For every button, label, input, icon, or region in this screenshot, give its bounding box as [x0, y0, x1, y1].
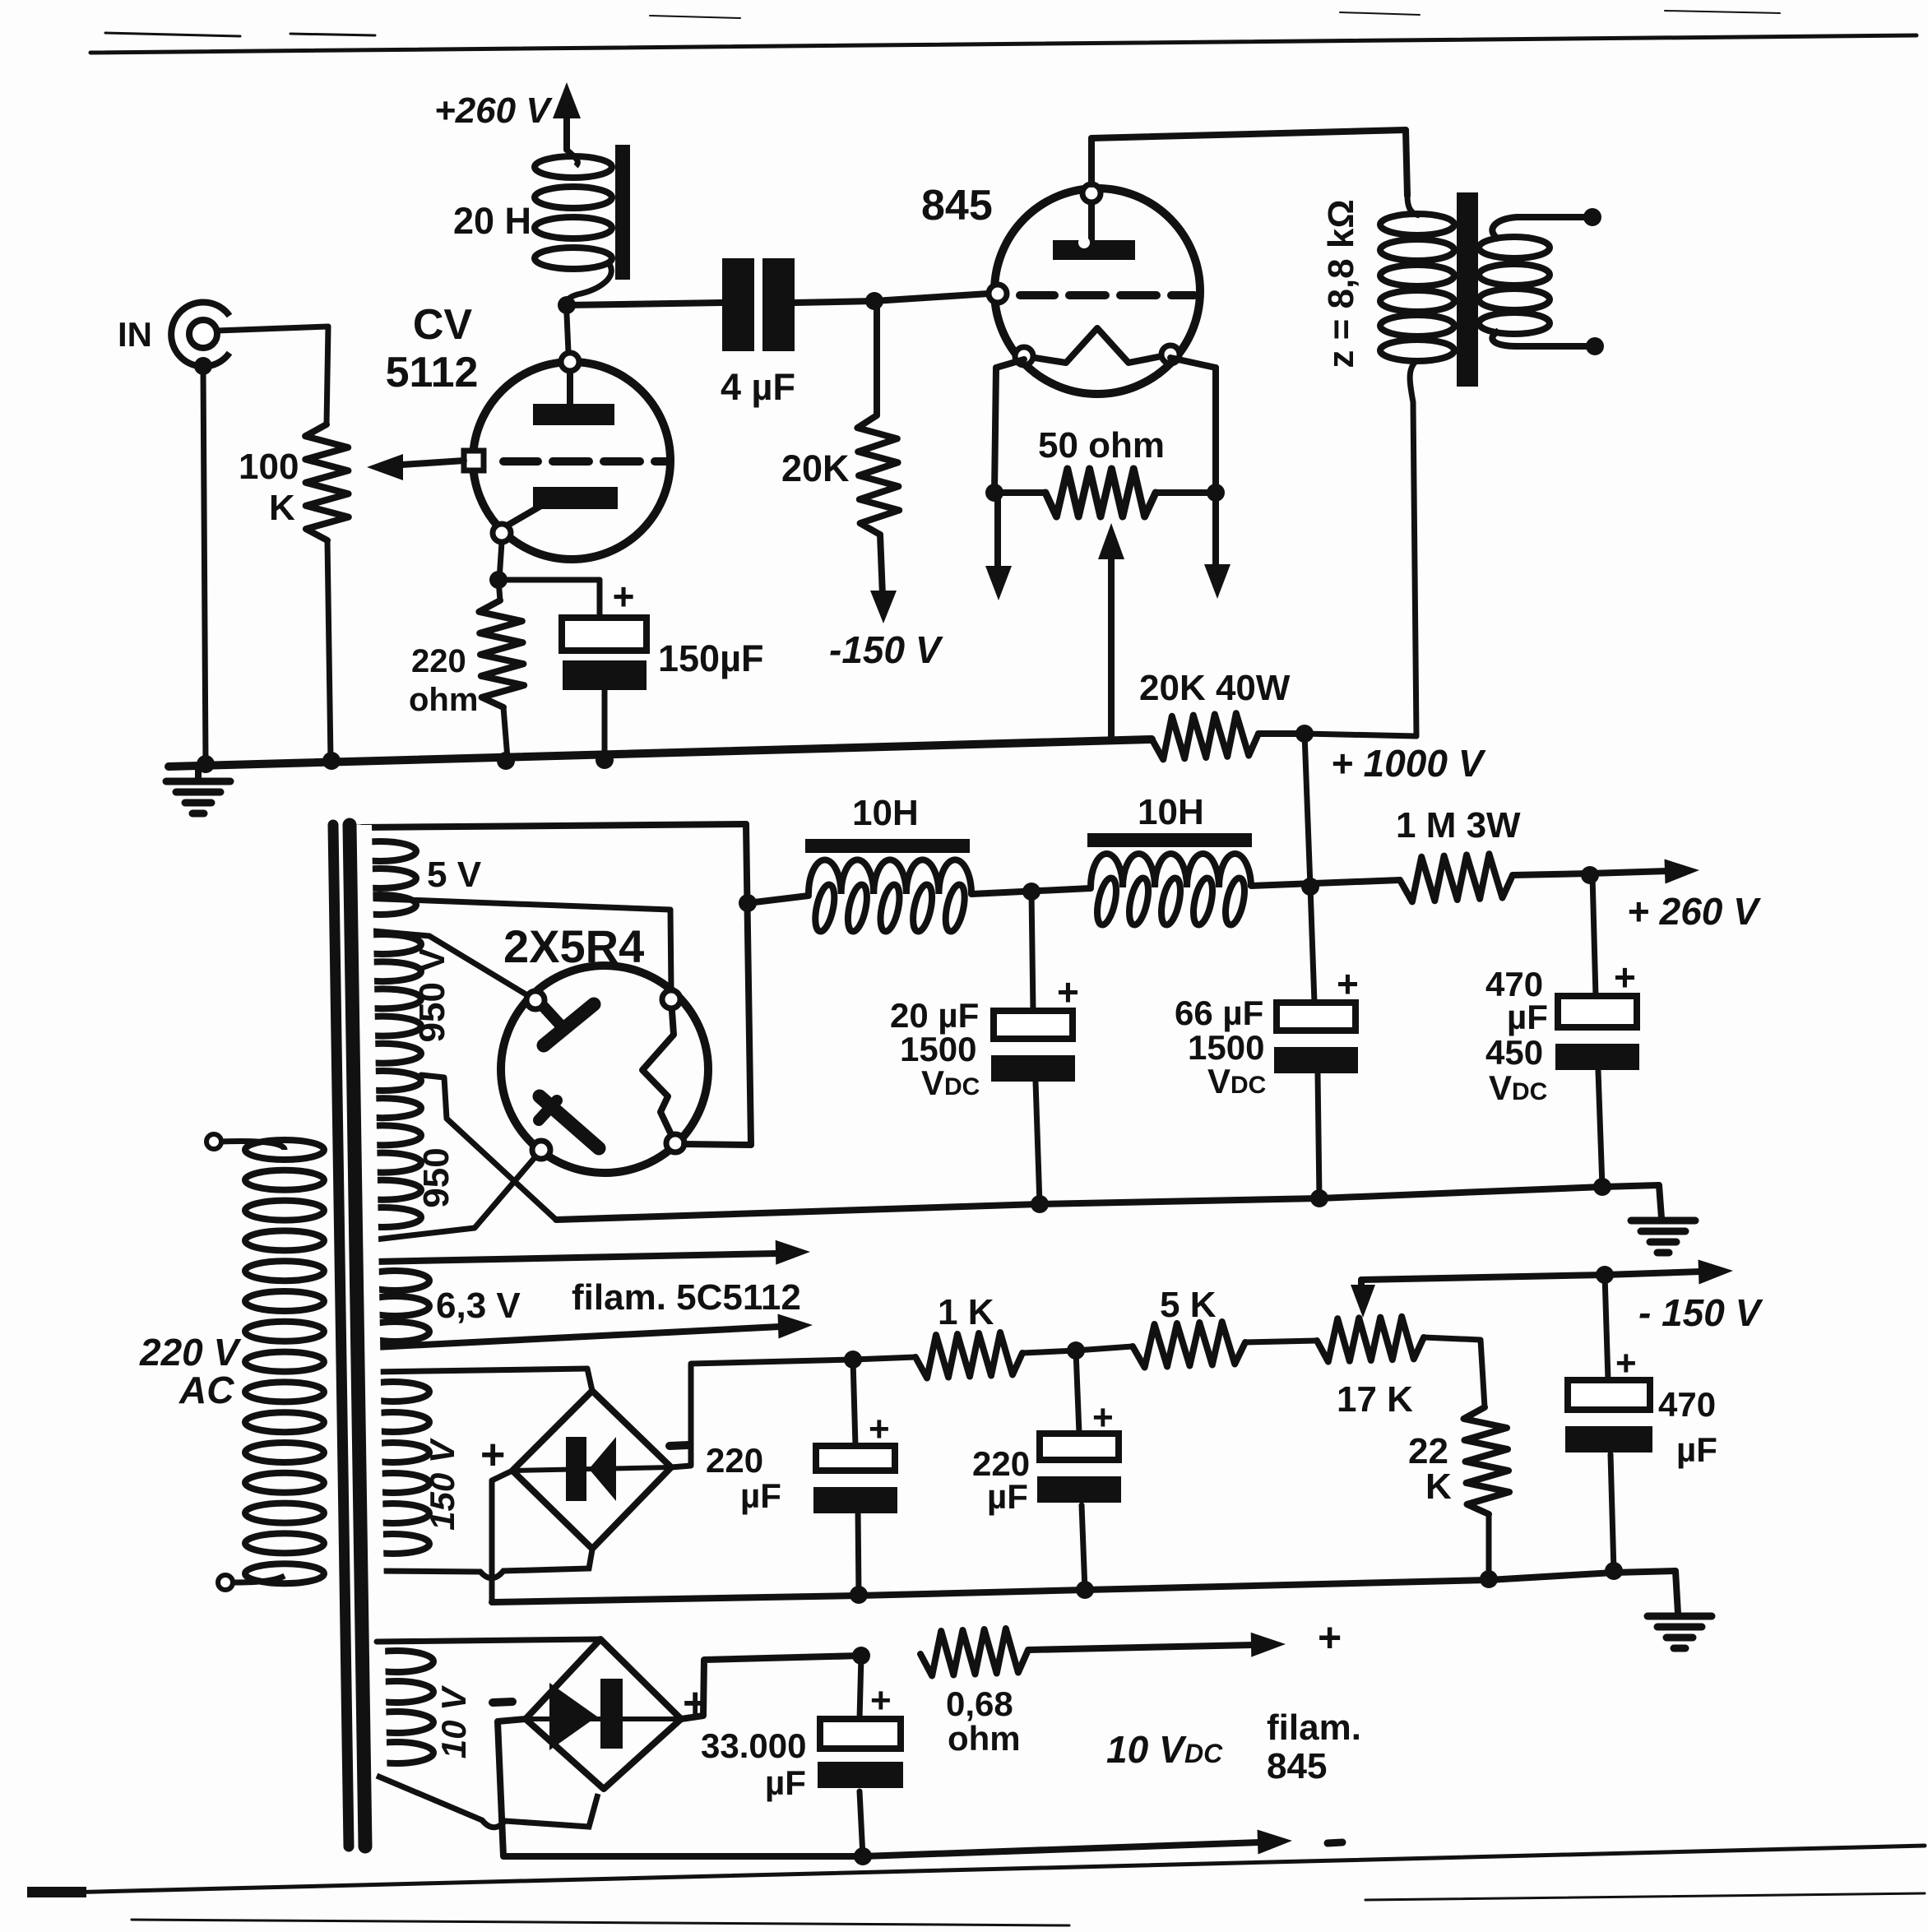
label 20 H — [453, 200, 531, 242]
bridge rectifier D1 diamond — [512, 1391, 671, 1549]
tube V1 anode pin — [561, 353, 579, 371]
label 1 K — [938, 1292, 994, 1332]
label 845 — [921, 182, 993, 229]
tube V3 pin filament top — [662, 990, 680, 1008]
svg-text:µF: µF — [765, 1763, 806, 1802]
PSU negative bus — [556, 1185, 1659, 1220]
bridge rectifier D2 diamond — [526, 1639, 681, 1789]
inductor L1 10H coil — [809, 859, 971, 933]
label 220 uF (second) — [972, 1444, 1030, 1516]
svg-text:4 µF: 4 µF — [721, 366, 795, 408]
tube V2 filament pins — [1015, 345, 1180, 365]
label 950 V (upper) — [412, 947, 452, 1043]
svg-text:K: K — [269, 488, 295, 528]
label + (470uF bias) — [1615, 1343, 1637, 1383]
svg-text:+ 1000 V: + 1000 V — [1331, 742, 1486, 785]
svg-text:V: V — [1489, 1068, 1512, 1107]
label + (470uF PSU) — [1614, 956, 1636, 998]
arrow filament - output — [507, 1830, 1292, 1865]
svg-text:1500: 1500 — [1188, 1028, 1264, 1067]
svg-text:+: + — [1615, 1343, 1637, 1383]
label - (bridge2) — [493, 1702, 512, 1703]
arrow filament 5C5112 lower — [375, 1314, 813, 1348]
wire 5V top to output (rectifier cathode rail) — [362, 824, 746, 827]
label IN — [118, 315, 152, 354]
capacitor C9 470uF (bias) — [1565, 1275, 1652, 1571]
svg-text:ohm: ohm — [409, 682, 478, 718]
junction dot bus-470uF — [1593, 1178, 1611, 1196]
svg-text:+: + — [869, 1409, 890, 1449]
label 100 K — [239, 447, 299, 528]
label 220 ohm — [409, 643, 478, 718]
svg-text:5 V: 5 V — [427, 855, 482, 895]
junction dot bus-150uF — [596, 751, 614, 769]
node E junction dot (20uF) — [1022, 883, 1040, 901]
svg-text:5 K: 5 K — [1160, 1285, 1217, 1325]
label 4 uF — [721, 366, 795, 408]
label z = 8,8 kOhm — [1321, 199, 1361, 368]
label 0,68 ohm — [946, 1684, 1021, 1758]
junction dot bus-IN — [197, 755, 215, 773]
svg-text:10H: 10H — [852, 793, 919, 833]
wire 10V bottom to bridge2 AC2 — [377, 1776, 598, 1828]
svg-text:AC: AC — [178, 1369, 234, 1411]
svg-text:950: 950 — [416, 1147, 457, 1207]
svg-text:DC: DC — [1512, 1078, 1547, 1105]
tube V3 pin plate1 — [526, 991, 545, 1009]
label 1 M 3W — [1396, 805, 1521, 846]
potentiometer R5 50 ohm — [994, 469, 1216, 517]
label 150uF — [658, 637, 764, 679]
junction dot bias bus 470uF — [1605, 1562, 1623, 1580]
inductor 20H core bar — [615, 145, 630, 280]
tube V3 2X5R4 envelope — [501, 966, 708, 1173]
svg-text:CV: CV — [413, 301, 473, 349]
label 5 V — [427, 855, 482, 895]
potentiometer R1 100K — [305, 424, 349, 761]
node C junction dot (cathode/220ohm/150uF) — [489, 571, 507, 589]
page top border line — [90, 11, 1916, 53]
svg-text:-150 V: -150 V — [829, 628, 943, 671]
wire HV center tap to PSU bus — [421, 1075, 556, 1220]
arrow filament + output — [1028, 1633, 1286, 1657]
svg-text:+: + — [870, 1680, 892, 1721]
label 220 V AC — [139, 1331, 242, 1411]
capacitor C10 33000uF — [818, 1656, 903, 1856]
junction dot bus-66uF — [1310, 1189, 1328, 1207]
svg-text:+: + — [613, 575, 635, 618]
label + 1000 V — [1331, 742, 1486, 785]
svg-text:K: K — [1425, 1466, 1452, 1507]
svg-text:filam.: filam. — [1267, 1707, 1361, 1748]
junction dot bus-220ohm — [497, 752, 515, 770]
wire V1 cathode to node C — [499, 542, 502, 580]
capacitor C6 470uF 450VDC — [1555, 875, 1639, 1187]
label - (filament output) — [1328, 1842, 1342, 1843]
svg-text:20 H: 20 H — [453, 200, 531, 242]
svg-text:µF: µF — [1676, 1430, 1717, 1469]
tube V2 filament — [1024, 328, 1170, 363]
svg-text:z = 8,8 kΩ: z = 8,8 kΩ — [1321, 199, 1361, 368]
wire 150V top to bridge1 AC1 — [373, 1369, 592, 1391]
svg-text:220 V: 220 V — [139, 1331, 242, 1374]
wire rectifier output rail — [684, 824, 751, 1145]
tube V2 845 envelope — [994, 188, 1200, 394]
tube V2 grid dashed line — [1020, 291, 1194, 299]
transformer T2 secondary coil — [1479, 217, 1590, 346]
label + (220uF first) — [869, 1409, 890, 1449]
tube V3 diode plate 1 — [543, 1004, 594, 1045]
svg-text:+ 260 V: + 260 V — [1627, 890, 1761, 933]
svg-text:845: 845 — [1267, 1746, 1327, 1786]
wire +1000V node down to PSU — [1305, 734, 1310, 887]
label - 150 V (bias) — [1638, 1291, 1763, 1334]
svg-text:µF: µF — [740, 1476, 781, 1515]
node +1000V junction dot — [1295, 725, 1314, 743]
tube V3 filament — [642, 999, 675, 1143]
wire node A to CV5112 anode pin — [567, 314, 568, 352]
label 22 K — [1408, 1431, 1452, 1507]
junction dot bus-100K — [322, 752, 341, 770]
tube V2 anode plate — [1053, 203, 1135, 260]
resistor R2 20K — [857, 301, 899, 623]
label + (filament output) — [1318, 1615, 1342, 1661]
svg-text:µF: µF — [987, 1477, 1028, 1516]
label 470 uF (bias) — [1658, 1385, 1717, 1469]
label + (33000uF) — [870, 1680, 892, 1721]
svg-text:+: + — [1092, 1397, 1114, 1438]
svg-text:1 M 3W: 1 M 3W — [1396, 805, 1521, 846]
arrow filament left to - — [985, 498, 1012, 600]
node H junction dot (bridge1-/220uF) — [844, 1351, 862, 1369]
page bottom border lines — [27, 1846, 1925, 1925]
label +260 V (top) — [434, 90, 553, 131]
tube V1 anode plate — [533, 371, 614, 425]
wire 10V top to bridge2 AC1 — [377, 1639, 600, 1642]
label + (66uF) — [1337, 962, 1359, 1005]
node G junction dot (+260V/470uF) — [1581, 866, 1599, 884]
svg-text:10 V: 10 V — [434, 1685, 473, 1758]
transformer T1 6.3V winding — [354, 1262, 429, 1348]
label 20K 40W — [1139, 668, 1291, 708]
tube V1 CV5112 envelope — [473, 362, 670, 559]
label 20K — [781, 447, 850, 489]
svg-text:20 µF: 20 µF — [890, 996, 979, 1035]
svg-text:V: V — [1207, 1062, 1230, 1100]
label filam. 5C5112 — [572, 1277, 801, 1318]
svg-text:150 V: 150 V — [423, 1438, 461, 1531]
label 66 uF 1500 VDC — [1175, 994, 1266, 1100]
svg-text:+: + — [1318, 1615, 1342, 1661]
svg-text:IN: IN — [118, 315, 152, 354]
svg-text:17 K: 17 K — [1337, 1379, 1413, 1420]
wire bridge2 plus up — [681, 1656, 861, 1719]
wire 150uF to ground bus — [602, 690, 608, 758]
label 220 uF (first) — [706, 1441, 781, 1515]
wire 845 filament-right down — [1170, 358, 1216, 493]
junction dot 50ohm right — [1207, 484, 1225, 502]
terminal OPT secondary top — [1583, 208, 1601, 226]
svg-text:filam. 5C5112: filam. 5C5112 — [572, 1277, 801, 1318]
svg-text:1 K: 1 K — [938, 1292, 994, 1332]
svg-text:V: V — [921, 1063, 944, 1102]
node A junction dot (anode/choke/4uF) — [558, 296, 576, 314]
label - (bridge1) — [670, 1445, 688, 1446]
svg-text:µF: µF — [1507, 998, 1548, 1036]
svg-text:450: 450 — [1485, 1033, 1543, 1072]
wire -150V output line — [1361, 1275, 1605, 1280]
tube V1 grid pin square — [464, 451, 484, 470]
junction dot bus-20uF — [1031, 1195, 1049, 1213]
svg-text:50 ohm: 50 ohm — [1038, 425, 1165, 466]
tube V2 anode pin — [1082, 184, 1101, 202]
label 470 uF 450 VDC — [1485, 965, 1548, 1107]
transformer T1 primary 220V winding — [206, 1134, 324, 1590]
resistor R12 0,68 ohm — [920, 1629, 1028, 1676]
wire 4uF to node B — [795, 301, 874, 303]
ground bus (amplifier) — [169, 739, 1152, 767]
wire 845 anode to OPT primary top — [1091, 130, 1407, 196]
svg-text:+: + — [480, 1431, 505, 1479]
svg-text:20K 40W: 20K 40W — [1139, 668, 1291, 708]
junction dot bias bus 220uF-1 — [850, 1586, 868, 1604]
svg-text:220: 220 — [411, 643, 466, 679]
svg-text:6,3 V: 6,3 V — [436, 1286, 521, 1326]
tube V1 grid dashed line — [503, 457, 668, 466]
svg-text:22: 22 — [1408, 1431, 1448, 1471]
label 17 K — [1337, 1379, 1413, 1420]
wire HV bottom to rectifier plate 2 — [368, 1149, 542, 1240]
resistor R6 20K 40W — [1152, 713, 1304, 759]
tube V3 diode plate 2 — [539, 1096, 599, 1148]
label 5 K — [1160, 1285, 1217, 1325]
svg-text:+: + — [1337, 962, 1359, 1005]
label + 260 V (PSU) — [1627, 890, 1761, 933]
wire node A to 4uF capacitor — [567, 303, 722, 305]
svg-text:ohm: ohm — [948, 1719, 1021, 1758]
node B junction dot (4uF/20K/845 grid) — [865, 292, 883, 310]
capacitor C2 150uF — [562, 618, 647, 690]
label + (150uF) — [613, 575, 635, 618]
arrow filament 5C5112 upper — [375, 1240, 810, 1265]
bridge D1 diode symbol — [566, 1437, 616, 1501]
svg-text:845: 845 — [921, 182, 993, 229]
label 6,3 V — [436, 1286, 521, 1326]
wire bridge1 minus to bias rail — [671, 1360, 853, 1467]
resistor R11 22K — [1424, 1337, 1509, 1579]
svg-text:10H: 10H — [1138, 792, 1204, 832]
wire bridge2 minus to filament minus line — [498, 1719, 863, 1856]
node D junction dot (B+ rail tap) — [739, 894, 757, 912]
wire node B to 845 grid — [874, 294, 989, 301]
wire HV top to rectifier plate 1 — [355, 929, 535, 1000]
label -150 V (grid return) — [829, 628, 943, 671]
label 2X5R4 — [503, 920, 644, 972]
bias negative bus — [492, 1571, 1675, 1602]
svg-text:DC: DC — [944, 1073, 980, 1100]
tube V3 pin plate2 — [532, 1141, 550, 1159]
svg-text:1500: 1500 — [900, 1030, 976, 1068]
wire node D to choke 1 — [748, 896, 809, 903]
ground symbol (amplifier bus) — [166, 767, 230, 813]
junction dot bias bus 220uF-2 — [1076, 1581, 1094, 1599]
svg-text:10 V: 10 V — [1106, 1728, 1187, 1771]
svg-text:5112: 5112 — [386, 349, 479, 396]
capacitor C4 20uF 1500VDC — [991, 892, 1075, 1204]
node +260V supply arrow (top) — [553, 82, 581, 150]
wire V1 grid to 100K wiper with arrow — [367, 454, 464, 480]
svg-text:+260 V: +260 V — [434, 90, 553, 131]
arrow filament right to + — [1204, 498, 1230, 599]
svg-text:20K: 20K — [781, 447, 850, 489]
capacitor C5 66uF 1500VDC — [1274, 887, 1358, 1198]
label 950 (lower) — [416, 1147, 457, 1207]
wire node C to 150uF cap — [498, 580, 600, 618]
wire IN jack to 100K top — [217, 327, 328, 424]
resistor R3 220 ohm — [479, 580, 524, 758]
capacitor C7 220uF (first) — [813, 1360, 897, 1595]
wire 845 filament-left down — [994, 359, 1024, 493]
svg-text:DC: DC — [1184, 1739, 1223, 1768]
ground symbol (bias bus) — [1648, 1571, 1712, 1648]
label + (bridge1) — [480, 1431, 505, 1479]
svg-text:950 V: 950 V — [412, 947, 452, 1043]
label + (220uF second) — [1092, 1397, 1114, 1438]
resistor R8 1K — [853, 1332, 1076, 1378]
wire IN jack to ground bus — [203, 369, 206, 763]
svg-text:150µF: 150µF — [658, 637, 764, 679]
capacitor C8 220uF (second) — [1037, 1351, 1121, 1590]
svg-text:+: + — [1614, 956, 1636, 998]
transformer T1 5V winding — [339, 827, 416, 915]
inductor L1 10H core bar — [805, 839, 970, 853]
label 50 ohm — [1038, 425, 1165, 466]
svg-text:66 µF: 66 µF — [1175, 994, 1263, 1032]
wire 150V bottom to bridge1 AC2 — [373, 1550, 592, 1578]
capacitor C1 4uF plates — [722, 258, 795, 351]
label 20 uF 1500 VDC — [890, 996, 980, 1102]
node K junction dot (33000uF top) — [852, 1647, 870, 1665]
label 33.000 uF — [701, 1726, 806, 1802]
label + (bridge2) — [683, 1679, 707, 1727]
wire 1M to +260V node — [1513, 873, 1590, 875]
arrow 50ohm wiper from bus — [1098, 523, 1124, 741]
label 10H (L1) — [852, 793, 919, 833]
wire 5V bottom to tube pin — [362, 898, 671, 990]
arrow -150V output — [1605, 1260, 1733, 1285]
bridge D2 diode symbol — [549, 1679, 623, 1750]
tube V3 pin filament bottom — [666, 1134, 684, 1152]
terminal OPT secondary bottom — [1586, 337, 1604, 355]
svg-text:33.000: 33.000 — [701, 1726, 806, 1765]
wire bridge1 plus to bias bus — [492, 1471, 512, 1602]
tube V2 grid pin — [989, 285, 1007, 303]
inductor L2 10H coil — [1091, 854, 1251, 926]
node I junction dot (1K/5K/220uF) — [1067, 1341, 1085, 1360]
svg-text:470: 470 — [1658, 1385, 1716, 1424]
resistor R9 5K — [1076, 1322, 1317, 1368]
label 10 V — [434, 1685, 473, 1758]
wire choke1 to choke2 — [971, 888, 1091, 894]
label + (20uF) — [1057, 971, 1079, 1013]
svg-text:100: 100 — [239, 447, 299, 487]
arrow +260V output — [1590, 859, 1699, 884]
wiper arrow 17K — [1351, 1280, 1375, 1318]
node F junction dot (+1000V/66uF) — [1301, 878, 1319, 896]
junction dot bias bus 22K — [1480, 1570, 1498, 1588]
tube V1 cathode pin — [493, 524, 511, 542]
label 10 VDC — [1106, 1728, 1223, 1771]
label CV 5112 — [386, 301, 479, 396]
transformer T1 150V winding — [351, 1372, 429, 1571]
svg-text:DC: DC — [1230, 1072, 1266, 1099]
label 150 V — [423, 1438, 461, 1531]
svg-text:+: + — [1057, 971, 1079, 1013]
node J junction dot (-150V/470uF) — [1596, 1266, 1614, 1284]
label filam. 845 — [1267, 1707, 1361, 1786]
ground symbol (PSU bus) — [1631, 1185, 1695, 1253]
node L junction dot (33000uF bottom) — [854, 1847, 872, 1865]
transformer T1 10V winding — [355, 1642, 433, 1777]
transformer T1 core — [327, 825, 388, 1846]
transformer T1 HV winding 950-0-950 — [341, 929, 421, 1240]
wire +1000V node to OPT primary bottom — [1305, 734, 1416, 736]
transformer T2 core — [1457, 192, 1478, 387]
junction dot 50ohm left — [985, 484, 1003, 502]
svg-text:0,68: 0,68 — [946, 1684, 1013, 1723]
tube V1 cathode plate — [504, 487, 618, 527]
inductor 20H choke coil — [535, 150, 612, 305]
potentiometer R10 17K — [1317, 1317, 1424, 1362]
label 10H (L2) — [1138, 792, 1204, 832]
svg-text:220: 220 — [706, 1441, 763, 1480]
wire choke2 to 1M — [1251, 880, 1400, 886]
connector IN jack — [171, 303, 229, 375]
inductor L2 10H core bar — [1087, 833, 1252, 847]
svg-text:- 150 V: - 150 V — [1638, 1291, 1763, 1334]
transformer T2 OPT primary coil — [1380, 196, 1454, 736]
resistor R7 1M 3W — [1400, 854, 1513, 901]
